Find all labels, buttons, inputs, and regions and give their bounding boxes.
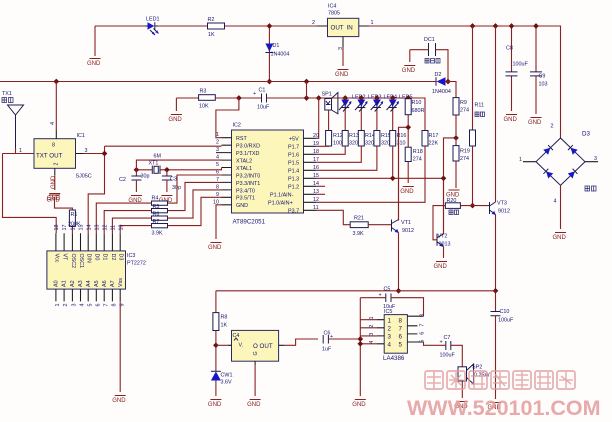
svg-text:R11: R11: [475, 103, 485, 109]
wire R16 to IC2 pin15 and VT2 collector riser: [316, 138, 456, 235]
svg-text:2: 2: [312, 20, 315, 26]
svg-text:C9: C9: [539, 74, 546, 80]
wire VT3 emitter down through C10: [495, 215, 497, 400]
svg-text:IC1: IC1: [77, 133, 85, 139]
junction R16 drop: [390, 175, 396, 181]
junction RST drop: [236, 95, 242, 101]
svg-text:C5: C5: [384, 287, 391, 293]
junction pin20 drop: [316, 95, 322, 101]
LED LED2: [339, 95, 366, 131]
junction D1 bottom: [267, 79, 273, 85]
wire IC4 pin3 to ground: [342, 47, 344, 66]
svg-text:19: 19: [313, 141, 319, 147]
wire IC6 out to C6: [284, 339, 318, 345]
ground under C10: [488, 403, 502, 411]
svg-text:P3.4/T0: P3.4/T0: [236, 188, 255, 194]
IC IC2 AT89C2051: [232, 123, 304, 226]
svg-text:R6: R6: [153, 212, 160, 218]
resistor network R7: [120, 197, 221, 236]
svg-text:D3: D3: [118, 254, 124, 261]
resistor R18: [405, 147, 422, 162]
junction bus1 IC1: [53, 79, 59, 85]
ground under C8: [504, 115, 518, 123]
svg-text:11: 11: [111, 225, 117, 231]
LED LED3: [355, 95, 381, 131]
svg-text:3: 3: [72, 304, 78, 307]
IC3 bottom pin stubs: [56, 289, 120, 301]
svg-text:R9: R9: [460, 100, 467, 106]
wire IC5 pin5 to C7: [424, 342, 446, 345]
svg-text:3.9K: 3.9K: [152, 231, 163, 237]
svg-text:6: 6: [95, 304, 101, 307]
svg-text:100uF: 100uF: [440, 353, 456, 359]
resistor bank R16: [390, 131, 407, 147]
svg-text:RST: RST: [236, 136, 247, 142]
IC2 left pin numbers: [213, 132, 219, 206]
capacitor C10: [491, 309, 514, 324]
IC IC1 transmitter: [34, 122, 92, 180]
svg-text:A3: A3: [78, 280, 84, 287]
wire IC2 pin14 stub: [316, 185, 325, 187]
ground under SP2: [454, 402, 468, 410]
svg-text:SJ05C: SJ05C: [76, 174, 92, 180]
resistor R11: [470, 23, 485, 146]
wire R9 to junction: [455, 115, 457, 146]
svg-text:30p: 30p: [141, 174, 150, 180]
svg-text:A6: A6: [102, 280, 108, 287]
wire IC6 gnd pin: [254, 365, 256, 396]
resistor network R6: [112, 190, 221, 233]
svg-text:R19: R19: [460, 149, 470, 155]
svg-text:V.: V.: [239, 343, 244, 349]
svg-text:8: 8: [112, 304, 118, 307]
junction bus1 drop: [304, 79, 310, 85]
ground under IC3: [112, 396, 126, 404]
transistor VT1 9012: [392, 220, 415, 235]
label DC1 chinese: [425, 59, 440, 64]
svg-text:VT2: VT2: [438, 234, 448, 240]
svg-text:AT89C2051: AT89C2051: [233, 219, 266, 226]
svg-text:6M: 6M: [154, 154, 162, 160]
wire R8 to junction: [215, 331, 217, 372]
svg-text:+: +: [253, 91, 256, 97]
connector DC1: [410, 37, 448, 82]
svg-text:7: 7: [420, 324, 426, 327]
resistor bank R12: [326, 131, 343, 147]
LED LED4: [371, 95, 397, 131]
svg-text:3: 3: [594, 156, 597, 162]
IC5 right stubs: [407, 316, 423, 342]
svg-text:XTAL2: XTAL2: [236, 158, 252, 164]
junction C6 at column: [357, 336, 363, 342]
wire R18 to ground: [407, 162, 409, 184]
speaker SP1: [322, 92, 338, 114]
ground under VT2: [434, 262, 448, 270]
wire R12 to IC2 pin19: [316, 145, 329, 147]
wire R17 to IC2 pin12: [316, 146, 425, 202]
svg-text:OSC1: OSC1: [78, 254, 84, 269]
resistor bank R14: [358, 131, 375, 147]
svg-text:P3.0/RXD: P3.0/RXD: [236, 144, 260, 150]
svg-text:R18: R18: [413, 149, 423, 155]
wire audio rail: [216, 291, 496, 313]
svg-text:10uF: 10uF: [257, 105, 270, 111]
svg-text:11: 11: [313, 205, 319, 211]
svg-text:P1.4: P1.4: [288, 169, 299, 175]
svg-text:R2: R2: [208, 17, 215, 23]
LED LED5: [387, 95, 413, 131]
svg-text:VT: VT: [62, 254, 68, 262]
svg-text:LA4386: LA4386: [383, 355, 405, 362]
svg-text:2: 2: [388, 325, 392, 332]
svg-text:12: 12: [102, 225, 108, 231]
wire IC3 Vss to ground: [119, 301, 121, 392]
capacitor C3: [162, 170, 181, 192]
wire DC1 left to ground: [409, 50, 411, 62]
svg-text:OUT: OUT: [331, 25, 344, 32]
wire VT1 collector up: [398, 127, 400, 219]
IC3 top row labels: [53, 254, 123, 269]
resistor R2: [208, 17, 225, 38]
wire D3 bottom to ground: [560, 185, 562, 229]
IC5 right pin numbers: [420, 314, 426, 343]
wire R14 to IC2 pin17: [316, 146, 361, 162]
wire bus1 to bus2 drop: [306, 82, 308, 99]
wire R21 to IC2 pin11: [316, 210, 350, 224]
resistor R21: [350, 216, 368, 238]
junction crystal right: [164, 167, 170, 173]
svg-text:R1: R1: [71, 212, 78, 218]
junction audio rail right: [493, 288, 499, 294]
svg-text:1N4004: 1N4004: [432, 89, 451, 95]
junction VT3 collector at top line: [493, 23, 499, 29]
ground under IC6: [247, 400, 261, 408]
ground under CW1: [208, 400, 222, 408]
wire R19 to ground: [455, 161, 457, 188]
svg-text:DC1: DC1: [424, 37, 435, 43]
junction bus2 left: [304, 95, 310, 101]
svg-text:D3: D3: [582, 131, 590, 138]
wire C7 to SP2: [451, 345, 463, 367]
ground top-left: [94, 26, 96, 56]
svg-text:9012: 9012: [498, 209, 510, 215]
junction R11 bottom: [470, 203, 476, 209]
svg-text:R21: R21: [354, 216, 364, 222]
svg-text:10: 10: [118, 225, 124, 231]
svg-text:3: 3: [216, 147, 219, 153]
svg-text:13: 13: [94, 225, 100, 231]
junction D1 top: [267, 23, 273, 29]
capacitor C5: [360, 287, 423, 317]
ground under DC1: [402, 66, 416, 74]
junction DC1 drop on bus: [445, 79, 451, 85]
svg-text:4: 4: [388, 342, 392, 349]
wire IC1 pin3 net: [83, 146, 222, 233]
svg-text:R3: R3: [200, 89, 207, 95]
svg-text:320: 320: [381, 141, 390, 147]
wire C1 to bus2: [267, 98, 426, 131]
svg-text:1: 1: [55, 304, 61, 307]
wire R15 to IC2 pin16: [316, 146, 377, 170]
wire R10 bottom junction: [399, 115, 409, 221]
ground under IC5 column: [352, 400, 366, 408]
junction IC1 pin3: [102, 151, 108, 157]
svg-text:7: 7: [399, 325, 403, 332]
resistor network R4: [96, 175, 221, 233]
resistor bank R15: [374, 131, 391, 147]
svg-text:GND: GND: [236, 203, 248, 209]
svg-text:Vss: Vss: [118, 278, 124, 287]
wire R20 right to VT3 base: [460, 205, 489, 207]
svg-text:1: 1: [388, 317, 392, 324]
wire junction to IC6: [216, 344, 228, 346]
svg-text:IN: IN: [347, 25, 353, 32]
svg-text:13: 13: [313, 189, 319, 195]
svg-text:D1: D1: [102, 254, 108, 261]
capacitor C9: [530, 26, 548, 114]
svg-text:P1.7: P1.7: [288, 145, 299, 151]
svg-text:10K: 10K: [199, 104, 209, 110]
ground left of R3: [168, 115, 182, 123]
svg-text:CW1: CW1: [221, 373, 233, 379]
svg-text:P1.0/AIN+: P1.0/AIN+: [268, 201, 293, 207]
svg-text:8: 8: [399, 317, 403, 324]
ground above R1: [47, 195, 61, 203]
resistor R8: [213, 313, 228, 331]
svg-text:XT1: XT1: [149, 161, 159, 167]
capacitor C7: [440, 335, 456, 359]
IC IC6 audio preamp: [228, 330, 284, 365]
capacitor C8: [506, 26, 529, 111]
svg-text:XTAL1: XTAL1: [236, 166, 252, 172]
wire RST elbow: [216, 98, 239, 138]
wire +5V to IC2 pin20: [316, 98, 319, 138]
svg-text:P3.3/INT1: P3.3/INT1: [236, 181, 260, 187]
junction C8 top: [509, 23, 515, 29]
svg-text:C2: C2: [119, 177, 126, 183]
svg-text:17: 17: [62, 225, 68, 231]
IC3 bottom pin numbers: [55, 304, 125, 307]
svg-text:P1.3: P1.3: [288, 177, 299, 183]
IC2 left pin stubs: [216, 138, 232, 205]
svg-text:G: G: [253, 351, 259, 355]
svg-text:8: 8: [52, 143, 55, 149]
antenna TX1: [2, 91, 24, 148]
wire SP1 to R12: [328, 110, 330, 131]
svg-text:DIN: DIN: [86, 254, 92, 263]
IC3 bottom row labels: [54, 278, 124, 287]
wire top +5V line: [95, 26, 561, 138]
diode D2: [432, 72, 451, 95]
IC3 top pin numbers: [54, 225, 124, 231]
svg-text:100: 100: [333, 141, 342, 147]
transistor VT3 9012: [490, 201, 511, 216]
watermark line1: [425, 371, 575, 389]
svg-text:A5: A5: [94, 280, 100, 287]
wire R11 to VT3 base rail: [472, 146, 474, 206]
voltage regulator IC4 7805: [312, 4, 374, 51]
svg-text:7: 7: [103, 304, 109, 307]
svg-text:274: 274: [460, 108, 469, 114]
svg-text:D1: D1: [273, 43, 280, 49]
junction VT1 emitter on audio rail: [396, 288, 402, 294]
svg-text:274: 274: [460, 156, 469, 162]
IC2 right pin stubs: [304, 138, 317, 210]
wire R13 to IC2 pin18: [316, 146, 345, 154]
svg-text:274: 274: [413, 157, 422, 163]
wire IC2 pin10 to ground: [216, 205, 222, 239]
resistor R9: [453, 98, 469, 115]
svg-text:C7: C7: [444, 335, 451, 341]
svg-text:2: 2: [216, 140, 219, 146]
svg-text:R7: R7: [153, 219, 160, 225]
svg-text:D0: D0: [94, 254, 100, 261]
svg-text:A1: A1: [62, 280, 68, 287]
svg-text:D2: D2: [110, 254, 116, 261]
label D3 chinese: [585, 186, 596, 191]
svg-text:16: 16: [313, 165, 319, 171]
svg-text:SP1: SP1: [322, 92, 332, 98]
svg-text:9013: 9013: [439, 242, 451, 248]
wire R20 left to VT2 base: [433, 206, 445, 240]
IC5 left stubs: [377, 320, 384, 344]
svg-text:5: 5: [87, 304, 93, 307]
wire VT1 emitter down: [398, 233, 400, 291]
svg-text:R12: R12: [333, 133, 343, 139]
capacitor C2: [119, 170, 150, 192]
wire IC5 input column: [360, 298, 377, 396]
junction VT2 riser: [441, 175, 447, 181]
svg-text:P3.7: P3.7: [288, 209, 299, 215]
svg-text:7805: 7805: [328, 11, 340, 17]
resistor R19: [453, 146, 470, 162]
bridge rectifier D3: [519, 124, 598, 205]
svg-text:IC4: IC4: [328, 4, 336, 10]
svg-text:P1.2: P1.2: [288, 185, 299, 191]
svg-text:LED1: LED1: [146, 17, 160, 23]
svg-text:A7: A7: [110, 280, 116, 287]
ground under IC2: [208, 243, 222, 251]
svg-text:1K: 1K: [221, 323, 228, 329]
svg-text:R8: R8: [221, 315, 228, 321]
svg-text:4: 4: [50, 122, 56, 125]
wire IC1 pin4 to bus1: [55, 82, 57, 131]
IC2 right pin numbers: [313, 133, 319, 211]
capacitor C1: [253, 88, 270, 111]
svg-text:IC2: IC2: [233, 123, 241, 129]
svg-text:A4: A4: [86, 280, 92, 287]
svg-text:3.9K: 3.9K: [353, 231, 364, 237]
svg-text:P1.6: P1.6: [288, 153, 299, 159]
resistor R10: [405, 95, 424, 115]
junction column pin4: [357, 341, 363, 347]
junction crystal left: [134, 167, 140, 173]
wire R3 to C1: [215, 97, 261, 99]
wire IC2 pin13 stub: [316, 193, 325, 195]
svg-text:18: 18: [313, 149, 319, 155]
svg-text:5: 5: [216, 162, 219, 168]
svg-text:Vcc: Vcc: [53, 254, 59, 263]
junction C9 top: [533, 23, 539, 29]
resistor R17: [422, 131, 438, 147]
svg-text:310: 310: [397, 141, 406, 147]
ground under C9: [528, 118, 542, 126]
ground under D3: [553, 233, 567, 241]
svg-text:VT3: VT3: [497, 201, 507, 207]
IC IC3 PT2272: [47, 251, 146, 289]
resistor bank R13: [342, 131, 359, 147]
svg-text:2: 2: [63, 304, 69, 307]
svg-text:3: 3: [388, 334, 392, 341]
svg-text:R10: R10: [412, 100, 422, 106]
svg-text:1: 1: [369, 317, 375, 320]
svg-text:8: 8: [420, 314, 426, 317]
svg-text:16: 16: [71, 225, 77, 231]
svg-text:P1.1/AIN-: P1.1/AIN-: [270, 193, 294, 199]
wire VT2 collector up: [443, 178, 445, 234]
svg-text:R17: R17: [429, 133, 439, 139]
svg-text:P1.5: P1.5: [288, 161, 299, 167]
svg-text:2: 2: [369, 325, 375, 328]
svg-text:22K: 22K: [429, 141, 439, 147]
svg-text:A2: A2: [70, 280, 76, 287]
svg-text:1: 1: [19, 148, 22, 154]
wire bus1: [0, 82, 456, 98]
wire C2 column to XTAL2: [136, 160, 221, 170]
svg-text:17: 17: [313, 157, 319, 163]
svg-text:18: 18: [54, 225, 60, 231]
svg-text:4: 4: [80, 304, 86, 307]
svg-text:IC3: IC3: [127, 253, 135, 259]
svg-text:6: 6: [420, 332, 426, 335]
IC5 left pin numbers: [369, 317, 375, 344]
svg-text:O OUT: O OUT: [253, 343, 273, 350]
ground under IC4: [335, 70, 349, 78]
svg-text:C8: C8: [506, 46, 513, 52]
svg-text:A0: A0: [54, 280, 60, 287]
resistor R1: [55, 197, 81, 233]
svg-text:3: 3: [369, 333, 375, 336]
svg-text:20: 20: [313, 133, 319, 139]
svg-text:1K: 1K: [208, 32, 215, 38]
svg-text:4: 4: [369, 341, 375, 344]
junction R8 IC6 CW1: [213, 342, 219, 348]
wire IC1 pin2 to ground: [54, 175, 56, 190]
svg-text:R13: R13: [349, 133, 359, 139]
IC3 top pin stubs: [56, 233, 120, 251]
ground under C2: [128, 196, 142, 204]
svg-text:P3.1/TXD: P3.1/TXD: [236, 151, 259, 157]
ground under IC1: [47, 194, 61, 202]
svg-text:P3.2/INT0: P3.2/INT0: [236, 173, 260, 179]
svg-text:15: 15: [79, 225, 85, 231]
svg-text:2: 2: [54, 163, 60, 166]
svg-text:+: +: [440, 340, 443, 346]
svg-text:1uF: 1uF: [322, 347, 332, 353]
wire VT2 emitter to ground: [443, 247, 445, 259]
svg-text:5: 5: [420, 340, 426, 343]
svg-text:15: 15: [313, 173, 319, 179]
resistor R3: [199, 89, 216, 110]
svg-text:C10: C10: [500, 309, 510, 315]
ground under R18: [400, 187, 414, 195]
svg-text:14: 14: [313, 181, 319, 187]
junction R10 bottom: [405, 124, 411, 130]
svg-text:4: 4: [554, 199, 557, 205]
wire VT3 collector up: [495, 26, 497, 202]
svg-text:680R: 680R: [412, 108, 425, 114]
svg-text:1: 1: [371, 20, 374, 26]
